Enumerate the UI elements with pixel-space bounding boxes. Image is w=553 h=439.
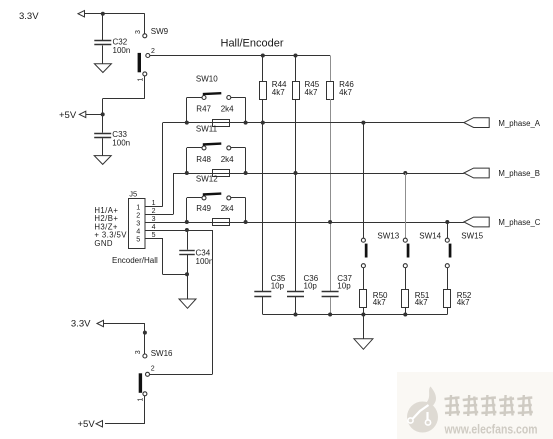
wire M_phase_C line [145,222,464,224]
connector J5 [129,199,146,249]
wire M_phase_A line [163,123,464,207]
svg-text:5: 5 [136,234,140,243]
SW16 pin labels [135,350,155,401]
wire SW9 pin 1 down [144,76,146,99]
wire top rail to R44 [262,56,264,82]
wire left stub SW10 [187,98,203,123]
svg-text:100n: 100n [113,46,131,55]
wire down to SW16 pin 3 [144,324,146,355]
wire top rail to R46 [330,56,332,82]
ground (C34) [179,299,196,308]
svg-text:GND: GND [94,239,113,248]
svg-text:100n: 100n [196,257,214,266]
wire R51 to bottom rail [405,308,407,315]
svg-text:M_phase_C: M_phase_C [498,218,540,227]
resistor R48 [213,170,230,177]
wire to C32 [102,14,104,40]
wire right stub SW12 [231,198,246,223]
junction +5V/C33 [101,112,105,116]
wire J5 pin 1 [145,206,163,208]
svg-text:100n: 100n [112,139,130,148]
svg-text:Encoder/Hall: Encoder/Hall [112,256,158,265]
wire top rail to R45 [295,56,297,82]
value C36 10p [304,274,319,290]
svg-text:SW10: SW10 [196,74,218,83]
J5 internal pin numbers [136,202,140,243]
svg-text:2: 2 [151,48,155,55]
net flag M_phase_B [464,168,489,178]
svg-text:3.3V: 3.3V [19,11,39,22]
junction top rail / R45 [294,54,298,58]
capacitor C35 [254,292,271,297]
resistor R49 [213,219,230,226]
wire C34 to gnd node [187,255,189,275]
svg-text:4k7: 4k7 [373,298,386,307]
value C34 100n [196,249,214,266]
wire to +5V (bottom) [105,423,145,425]
capacitor C33 [94,134,111,138]
junction R47 right [244,121,248,125]
svg-text:3: 3 [135,350,142,354]
wire SW16 pin 2 to riser [150,374,213,376]
wire right stub SW11 [231,148,246,174]
svg-text:+5V: +5V [59,110,77,121]
svg-text:2: 2 [152,208,156,215]
SW9 pin labels [135,30,155,82]
wire to SW9 pin 3 [144,14,146,34]
junction R44 / phase line [261,121,265,125]
capacitor C34 [179,251,195,255]
junction bottom rail [294,313,298,317]
wire left stub SW11 [187,148,203,174]
resistor R44 [260,82,267,100]
wire to C33 [102,114,104,132]
svg-text:10p: 10p [271,282,285,291]
junction pin4 / C34 [185,228,189,232]
label R49 2k4 [196,204,234,213]
ground (C33) [94,156,111,165]
switch SW10 [202,93,231,99]
resistor R50 [360,290,367,308]
junction bottom rail [361,313,365,317]
svg-text:2k4: 2k4 [221,105,234,114]
wire M_phase_B line [174,173,464,214]
label R45 4k7 [305,80,320,97]
label R47 2k4 [196,105,234,114]
switch SW13 [361,238,367,268]
value C37 10p [337,274,352,290]
label R44 4k7 [272,80,287,97]
svg-text:4k7: 4k7 [415,298,428,307]
wire J5 pin 4 [145,230,212,232]
svg-text:4: 4 [152,224,156,231]
wire left stub SW12 [187,198,203,223]
capacitor C36 [287,292,304,297]
switch SW14 [403,238,409,268]
value C32 100n [113,37,131,55]
resistor R52 [444,290,451,308]
svg-text:SW11: SW11 [196,125,218,134]
wire pin4 to C34 [187,230,189,250]
wire +5V [86,114,103,116]
wire right stub SW10 [231,98,246,123]
junction on 3.3V wire [143,331,147,335]
wire J5 pin 2 [145,214,174,216]
svg-text:SW13: SW13 [377,232,399,241]
wire bottom rail [263,314,448,316]
junction bottom rail [403,313,407,317]
wire 3.3V to SW9 [85,13,145,15]
wire SW15 to R52 [447,268,449,290]
junction phase C / SW15 [445,220,449,224]
net label +5V (bottom) [78,419,103,430]
net label 3.3V (top) [19,11,85,23]
wire phase to SW14 [405,173,407,238]
wire pin4 riser to SW16 pin 2 [212,230,214,374]
svg-text:5: 5 [152,232,156,239]
svg-text:3: 3 [135,30,142,34]
svg-text:+5V: +5V [78,419,96,430]
ground (bottom rail) [354,339,373,350]
wire C32 to ground [102,46,104,64]
svg-text:M_phase_A: M_phase_A [498,119,540,128]
svg-text:1: 1 [138,78,145,82]
net label +5V (top) [59,110,86,121]
junction R48 left [185,171,189,175]
svg-text:R49: R49 [196,204,211,213]
junction bottom rail [328,313,332,317]
watermark logo elecfans [397,372,553,439]
svg-text:2k4: 2k4 [221,155,234,164]
wire R50 to bottom rail [363,308,365,315]
wire rail to ground [363,315,365,339]
svg-text:SW9: SW9 [151,27,169,36]
wire SW14 to R51 [405,268,407,290]
svg-text:4k7: 4k7 [457,298,470,307]
wire phase to SW15 [447,222,449,238]
junction top rail / R44 [261,54,265,58]
wire J5 pin 5 [145,238,187,275]
switch SW12 [202,194,231,200]
wire R44 column down [262,99,264,291]
svg-text:3.3V: 3.3V [71,319,91,330]
junction R47 left [185,121,189,125]
svg-text:4k7: 4k7 [272,88,285,97]
label R46 4k7 [339,80,354,97]
wire C36 to bottom rail [295,297,297,315]
wire R45 column down [295,99,297,291]
label R50 4k7 [373,291,388,307]
wire SW16 pin 1 down [144,396,146,424]
wire to ground (C34) [187,274,189,299]
svg-text:SW16: SW16 [151,349,173,358]
resistor R51 [402,290,409,308]
label R51 4k7 [415,291,430,307]
wire C35 to bottom rail [262,297,264,315]
wire to +5V node (horiz) [103,98,145,100]
wire 3.3V to SW16 [104,323,145,325]
junction phase A / SW13 [361,121,365,125]
wire SW9 pin 2 net (top rail) [150,55,330,57]
value C33 100n [112,130,130,148]
svg-text:www.elecfans.com: www.elecfans.com [444,422,538,437]
switch SW16 [139,354,150,396]
svg-text:SW14: SW14 [419,232,441,241]
svg-text:10p: 10p [337,282,351,291]
svg-text:Hall/Encoder: Hall/Encoder [221,38,284,50]
switch SW11 [202,144,231,150]
svg-text:C32: C32 [113,37,128,46]
junction phase B / SW14 [403,171,407,175]
switch SW9 [138,34,150,76]
svg-text:R47: R47 [196,105,211,114]
label R48 2k4 [196,155,234,164]
junction R49 left [185,220,189,224]
wire SW13 to R50 [363,268,365,290]
resistor R47 [213,120,230,127]
svg-text:2k4: 2k4 [221,204,234,213]
value C35 10p [271,274,286,290]
resistor R46 [327,82,334,100]
junction R48 right [244,171,248,175]
resistor R45 [293,82,300,100]
svg-text:4k7: 4k7 [339,88,352,97]
svg-text:3: 3 [152,216,156,223]
svg-text:SW12: SW12 [196,175,218,184]
label R52 4k7 [457,291,472,307]
switch SW15 [445,238,451,268]
junction 3.3V/C32 [101,12,105,16]
svg-text:4k7: 4k7 [305,88,318,97]
svg-text:1: 1 [152,200,156,207]
svg-text:10p: 10p [304,282,318,291]
wire phase to SW13 [363,123,365,239]
junction R46 / phase line [328,220,332,224]
wire R52 to bottom rail [447,308,449,315]
net flag M_phase_A [464,118,489,128]
svg-text:1: 1 [138,398,145,402]
J5 external pin numbers [152,200,156,239]
junction R49 right [244,220,248,224]
svg-text:R48: R48 [196,155,211,164]
wire C37 to bottom rail [330,297,332,315]
svg-text:M_phase_B: M_phase_B [498,169,540,178]
wire C33 to ground [102,138,104,155]
junction R45 / phase line [294,171,298,175]
capacitor C32 [94,41,111,45]
svg-text:J5: J5 [129,189,137,198]
net label 3.3V (bottom) [71,319,104,330]
wire down to +5V node [102,99,104,115]
capacitor C37 [322,292,339,297]
junction C34/pin5/ground [185,272,189,276]
ground (C32) [94,64,111,73]
wire R46 column down [330,99,332,291]
J5 signal names [94,206,127,248]
svg-text:2: 2 [151,366,155,373]
svg-text:SW15: SW15 [461,232,483,241]
net flag M_phase_C [464,217,489,227]
